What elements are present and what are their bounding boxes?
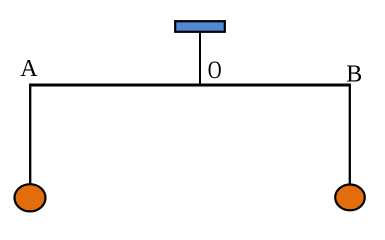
- svg-text:A: A: [20, 56, 38, 82]
- left string at A: [29, 84, 31, 184]
- right string at B: [349, 84, 351, 185]
- left ball (orange weight): [15, 184, 46, 211]
- support block (blue ceiling mount): [175, 21, 225, 32]
- svg-text:O: O: [208, 55, 222, 83]
- wire from support to rod at O: [199, 33, 201, 85]
- right ball (orange weight): [335, 185, 365, 211]
- svg-text:B: B: [346, 61, 362, 87]
- horizontal rod A-B: [29, 84, 351, 87]
